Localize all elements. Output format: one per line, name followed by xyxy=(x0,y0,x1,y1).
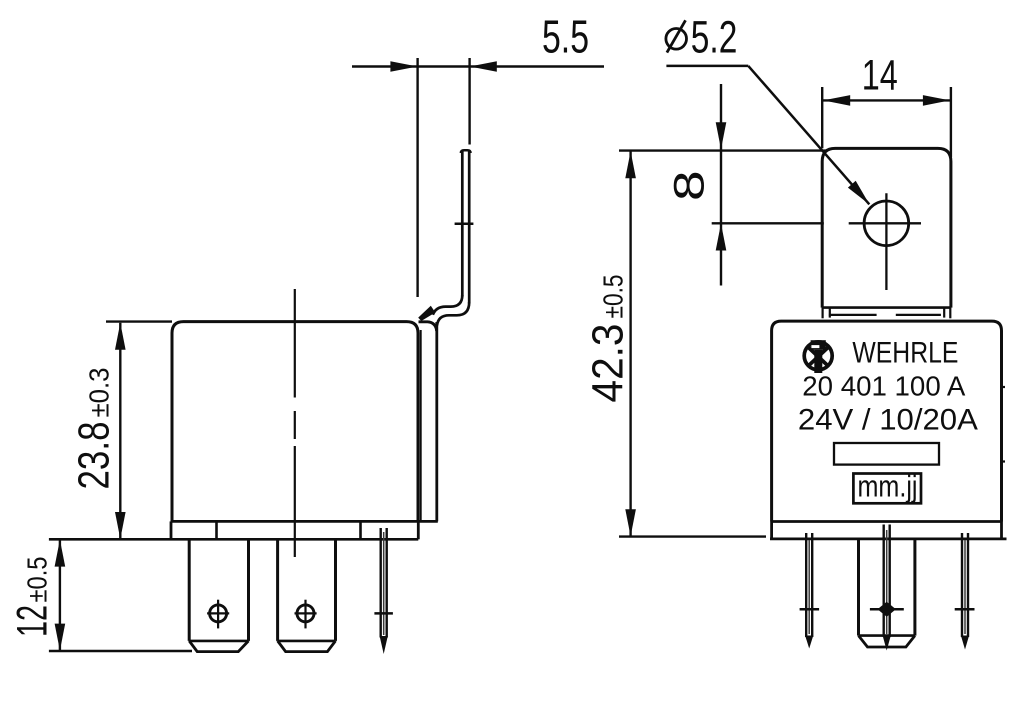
hole in blade 1 xyxy=(210,605,227,622)
svg-text:42.3: 42.3 xyxy=(584,324,633,403)
needle pin right (front view) xyxy=(961,533,963,637)
center line (side view) xyxy=(294,289,296,398)
blade terminal 2 (side view) xyxy=(278,539,336,641)
blade terminal 1 (side view) xyxy=(189,539,248,641)
bracket bend outer line xyxy=(437,302,469,326)
mounting tab (front view) xyxy=(822,148,951,307)
bracket plate behind body right side xyxy=(435,322,438,521)
svg-text:14: 14 xyxy=(862,52,898,100)
dimension 14 extension lines xyxy=(821,87,823,148)
needle pin left (front view) xyxy=(805,533,807,637)
svg-text:20 401 100 A: 20 401 100 A xyxy=(802,371,965,402)
diameter symbol xyxy=(666,29,687,50)
blank label box xyxy=(834,443,939,465)
dimension 5.5 extension line left xyxy=(416,58,418,297)
needle pin (side view) xyxy=(380,528,382,638)
svg-text:±0.5: ±0.5 xyxy=(598,275,629,319)
svg-text:24V / 10/20A: 24V / 10/20A xyxy=(798,403,978,436)
mounting bracket strip (side view) xyxy=(461,151,464,296)
bracket bend inner line xyxy=(433,295,463,315)
mounting hole xyxy=(864,201,909,246)
svg-text:23.8: 23.8 xyxy=(70,422,119,490)
bracket tick mark xyxy=(455,222,474,225)
relay body (side view) xyxy=(172,322,418,522)
svg-text:±0.3: ±0.3 xyxy=(84,368,115,418)
center blade terminal (front view) xyxy=(859,539,915,636)
bracket plate top corner xyxy=(419,322,437,331)
center needle pin (front view) xyxy=(883,525,885,638)
dimension 42.3 bottom extension xyxy=(619,535,766,537)
dimension 8 top extension / 42.3 top extension xyxy=(619,149,826,151)
relay body (front view) xyxy=(772,321,1002,521)
svg-text:±0.5: ±0.5 xyxy=(22,557,53,603)
hole in blade 2 xyxy=(297,605,314,622)
WEHRLE logo xyxy=(804,340,832,373)
svg-text:5.2: 5.2 xyxy=(691,11,738,62)
base strip divider 1 xyxy=(215,521,218,539)
svg-text:WEHRLE: WEHRLE xyxy=(852,337,958,370)
base strip (side view) xyxy=(49,538,418,541)
dimension 14 line xyxy=(822,99,951,101)
body right edge inner line xyxy=(420,330,422,521)
dimension 5.5 extension line right xyxy=(468,58,470,145)
dimension 12 line xyxy=(59,540,61,651)
svg-text:8: 8 xyxy=(665,170,713,201)
leader line for hole diameter xyxy=(666,65,748,68)
svg-text:12: 12 xyxy=(9,605,57,637)
dimension 23.8 extension line top xyxy=(106,320,172,322)
dimension 42.3 line xyxy=(629,151,631,536)
dimension 12 extension line bottom xyxy=(49,650,192,652)
hole vertical center line xyxy=(885,193,887,290)
dimension 5.5 line xyxy=(352,65,604,67)
svg-text:5.5: 5.5 xyxy=(542,11,589,63)
base strip divider 2 xyxy=(359,521,362,539)
date code box xyxy=(853,474,921,504)
tab base seam xyxy=(821,308,823,319)
svg-text:mm.jj: mm.jj xyxy=(858,469,918,504)
mold seam ticks xyxy=(1000,386,1005,388)
body bottom line / base top (side view) xyxy=(171,520,438,523)
bracket wrap over body corner xyxy=(418,306,435,321)
hole horizontal center line xyxy=(712,222,824,224)
base strip (front view) xyxy=(770,538,1007,541)
dimension 8 line xyxy=(720,84,722,286)
dimension 23.8 line xyxy=(119,323,121,539)
